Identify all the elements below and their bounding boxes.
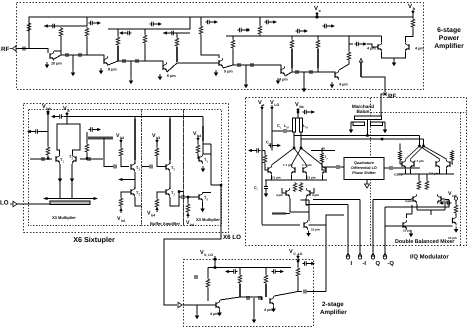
capacitor C2 xyxy=(66,53,68,57)
wire xyxy=(265,151,268,171)
transistor T4 upper xyxy=(166,162,170,172)
transistor A1 xyxy=(216,300,220,310)
RF port xyxy=(383,92,387,96)
Vbb wire down xyxy=(47,110,49,146)
ground xyxy=(276,78,281,84)
junction node xyxy=(297,111,300,114)
resistor R8 xyxy=(231,39,235,49)
bypass capacitor CB9 xyxy=(355,42,368,46)
base feed Q7 from interstage xyxy=(349,36,378,47)
resistor R2 xyxy=(425,180,429,190)
svg-text:1.7 μm: 1.7 μm xyxy=(283,163,293,167)
PA top rail xyxy=(29,17,413,49)
svg-text:RF: RF xyxy=(388,93,396,100)
bias feed arrows IQ xyxy=(260,107,263,110)
wire xyxy=(367,120,369,136)
bypass capacitor CB3 xyxy=(163,31,176,35)
wire xyxy=(351,122,385,127)
transistor Q8 xyxy=(405,42,409,52)
wire xyxy=(170,192,183,207)
transistor T6 xyxy=(199,192,203,202)
resistor Rb2 xyxy=(119,147,123,157)
bypass capacitor CB12 xyxy=(439,201,452,205)
wire xyxy=(121,192,131,213)
resistor R2 xyxy=(59,27,63,37)
svg-text:X3 Multiplier: X3 Multiplier xyxy=(196,217,220,222)
wire xyxy=(265,189,267,191)
wire xyxy=(262,150,265,152)
left mixer quad transistors xyxy=(268,165,272,175)
VC_LO wire xyxy=(297,254,299,267)
junction node xyxy=(86,157,89,160)
port xyxy=(383,253,386,259)
right load of left mixer xyxy=(320,152,323,163)
wire stage1-2 xyxy=(54,55,104,59)
wire xyxy=(316,12,318,17)
wire xyxy=(291,36,293,39)
transistor Q8 xyxy=(437,194,441,204)
svg-text:LO: LO xyxy=(274,103,279,107)
wire xyxy=(253,298,255,317)
wire RF input xyxy=(18,49,49,54)
ground xyxy=(200,206,205,212)
svg-text:V: V xyxy=(295,102,299,108)
output xyxy=(274,292,302,297)
svg-text:8 μm: 8 μm xyxy=(108,68,117,72)
EF emitter wires right xyxy=(417,204,445,215)
wire xyxy=(197,154,199,159)
stage1 collector line xyxy=(54,36,61,51)
right quad xyxy=(402,159,406,169)
wire xyxy=(134,117,136,165)
wire xyxy=(169,172,171,189)
junction node xyxy=(297,260,300,263)
TL gray xyxy=(291,49,293,68)
RF wire up from balun xyxy=(381,94,383,116)
svg-text:1.7 μm: 1.7 μm xyxy=(414,159,424,163)
svg-text:6-stage: 6-stage xyxy=(437,27,461,34)
wire xyxy=(399,144,401,165)
TL xyxy=(202,126,204,141)
wire xyxy=(130,61,132,78)
wire xyxy=(121,157,129,167)
wire xyxy=(226,35,284,37)
wire xyxy=(169,117,171,165)
wire xyxy=(361,77,385,92)
wire xyxy=(348,44,350,51)
ground xyxy=(195,313,200,319)
transistor Q1 xyxy=(291,165,295,175)
X3 multiplier 1 inner box xyxy=(29,110,142,226)
svg-text:b4: b4 xyxy=(190,223,194,227)
collector drops from tank xyxy=(294,132,301,148)
TL down xyxy=(169,119,171,160)
resistor below xyxy=(186,203,190,213)
capacitor C4 xyxy=(264,186,268,188)
transistor Q2 xyxy=(303,165,307,175)
wire xyxy=(176,33,178,37)
center divider dashed xyxy=(370,98,372,245)
wire xyxy=(451,161,453,164)
arrow left mid xyxy=(122,172,135,180)
wire xyxy=(157,192,166,212)
svg-text:4 μm: 4 μm xyxy=(279,78,288,82)
capacitor Ca2 xyxy=(259,296,261,300)
capacitor C2 xyxy=(88,157,90,161)
port xyxy=(358,253,361,259)
resistor R7 xyxy=(199,25,203,35)
ground xyxy=(306,231,311,237)
base cap xyxy=(182,195,184,199)
wire xyxy=(282,188,314,193)
stage6 collector xyxy=(339,61,349,70)
resistors xyxy=(293,182,297,192)
ground xyxy=(330,82,335,88)
svg-text:10 μm: 10 μm xyxy=(51,62,62,66)
collector loop xyxy=(57,124,80,154)
phase shifter ground xyxy=(366,180,368,184)
wire xyxy=(385,205,456,226)
ground xyxy=(158,74,163,80)
svg-text:b4: b4 xyxy=(151,214,155,218)
rail seg 5 xyxy=(284,35,382,37)
resistor R6 xyxy=(175,37,179,47)
svg-text:V: V xyxy=(258,100,262,106)
svg-text:RF: RF xyxy=(1,46,9,53)
bypass capacitor CB6 xyxy=(265,20,278,24)
bypass capacitor CB11 xyxy=(269,143,282,147)
base wires xyxy=(30,158,103,160)
transistor T1 xyxy=(56,154,60,164)
svg-text:bb: bb xyxy=(46,107,51,111)
transistor T2 xyxy=(72,154,76,164)
transistor Q4 xyxy=(219,58,223,68)
wire xyxy=(156,138,158,147)
right mixer loads xyxy=(398,150,401,161)
resistor R9 xyxy=(258,25,262,35)
shared emitter xyxy=(382,52,406,58)
wire xyxy=(317,68,319,72)
input wire xyxy=(183,304,216,306)
X3 multiplier 2 inner box xyxy=(184,110,222,226)
resistor Ra1 xyxy=(206,278,210,288)
transistor Q7 xyxy=(446,159,450,169)
svg-text:V: V xyxy=(42,104,46,110)
capacitor C3 xyxy=(79,53,81,57)
ground xyxy=(409,231,414,237)
node VC_LO xyxy=(296,256,299,259)
transistor A2 xyxy=(270,296,274,306)
wire xyxy=(86,37,88,55)
svg-text:10 μm: 10 μm xyxy=(311,228,320,232)
junction node xyxy=(214,258,217,261)
left pad arrow xyxy=(248,148,261,152)
wire xyxy=(286,213,290,215)
transistor Q6 xyxy=(436,159,440,169)
svg-text:6 μm: 6 μm xyxy=(167,74,176,78)
LO wire xyxy=(17,203,50,204)
wire xyxy=(202,117,204,155)
svg-text:X3 Multiplier: X3 Multiplier xyxy=(52,215,76,220)
LO collector fan left mixer xyxy=(272,148,323,165)
TL gray out to right xyxy=(88,137,113,140)
mixer inner dashed box xyxy=(371,113,467,246)
wire xyxy=(297,277,299,292)
wire xyxy=(142,166,149,168)
resistor R3 xyxy=(454,204,458,214)
ground xyxy=(271,306,276,312)
interstage xyxy=(220,297,262,300)
wire xyxy=(134,172,136,189)
transistor Q3 xyxy=(163,62,167,72)
transmission line TL xyxy=(176,47,178,62)
junction node xyxy=(47,157,50,160)
resistor R11 xyxy=(316,39,320,49)
wire stage2-3 xyxy=(108,61,163,65)
output down xyxy=(203,185,221,226)
wire xyxy=(60,51,62,55)
long wire right to buffer/x3 xyxy=(64,116,203,118)
capacitor C9 xyxy=(310,70,312,74)
capacitor C1 xyxy=(42,157,44,161)
transistor T4 lower xyxy=(166,187,170,197)
capacitor Ca3 xyxy=(304,289,306,293)
resistor R5 xyxy=(143,34,147,44)
transmission line TL xyxy=(117,46,119,61)
transistor Q4 xyxy=(306,188,310,198)
wire xyxy=(86,132,88,159)
bias feed arrows X6 xyxy=(46,111,49,114)
resistor Ra2 xyxy=(238,274,242,284)
svg-text:bb: bb xyxy=(299,105,303,109)
bypass caps xyxy=(225,269,238,273)
ground xyxy=(45,62,50,68)
svg-text:1.7 μm: 1.7 μm xyxy=(302,163,312,167)
svg-text:V: V xyxy=(408,3,412,10)
ground xyxy=(201,166,206,172)
ground xyxy=(383,127,388,133)
transistor Q5 xyxy=(281,66,285,76)
wire xyxy=(272,130,293,132)
wire xyxy=(239,268,241,275)
emitter line with arrows xyxy=(46,198,95,200)
wire xyxy=(262,224,300,226)
svg-text:b_LO: b_LO xyxy=(204,253,213,257)
svg-text:5 μm: 5 μm xyxy=(224,70,233,74)
stage3-4 wire xyxy=(167,60,219,72)
bypass capacitor CB4 xyxy=(206,20,219,24)
wire xyxy=(265,268,267,275)
resistor RL1 xyxy=(46,146,50,156)
junction node xyxy=(381,138,384,141)
EF right xyxy=(413,194,417,204)
bypass capacitor CB2 xyxy=(119,31,132,35)
transistor T3 lower xyxy=(131,187,135,197)
wire xyxy=(201,17,219,58)
wire xyxy=(245,65,247,82)
capacitor C3 xyxy=(284,129,286,133)
input pair: transistor Q7 xyxy=(378,42,382,52)
junction node xyxy=(422,145,425,148)
port xyxy=(371,253,374,259)
ground xyxy=(264,191,269,197)
PA dashed box xyxy=(17,3,424,90)
svg-text:V: V xyxy=(289,249,293,255)
svg-text:V: V xyxy=(63,106,67,112)
wire xyxy=(291,68,293,72)
svg-text:Balun: Balun xyxy=(356,109,369,114)
wire xyxy=(207,268,209,302)
wire xyxy=(306,200,449,208)
wire xyxy=(265,180,267,186)
svg-text:Amplifier: Amplifier xyxy=(320,309,347,316)
capacitor C4 xyxy=(123,59,125,63)
wire xyxy=(47,156,49,159)
svg-text:b2: b2 xyxy=(121,219,125,223)
svg-text:4 μm: 4 μm xyxy=(276,193,283,197)
svg-text:Double Balanced Mixer: Double Balanced Mixer xyxy=(395,239,455,245)
svg-text:X6 Sixtupler: X6 Sixtupler xyxy=(73,235,115,244)
tail collector TL xyxy=(272,212,286,214)
right mixer collector drops xyxy=(420,136,424,147)
svg-text:10 μm: 10 μm xyxy=(448,236,457,240)
svg-text:V: V xyxy=(314,5,318,12)
EF left mixer xyxy=(286,188,290,198)
stage4-5 caps xyxy=(223,65,281,68)
ground xyxy=(70,176,75,182)
wire xyxy=(307,291,326,293)
svg-text:V: V xyxy=(200,250,204,256)
wire xyxy=(384,167,420,169)
quadrature phase shifter box xyxy=(344,158,384,180)
svg-text:Differential LO: Differential LO xyxy=(351,166,377,170)
ground xyxy=(349,127,354,133)
wire xyxy=(419,174,427,180)
svg-text:Quadrature: Quadrature xyxy=(354,161,374,165)
junction node xyxy=(293,147,296,150)
LO wire to tails xyxy=(308,215,344,225)
rail2 segment xyxy=(44,17,87,26)
junction node xyxy=(418,145,421,148)
right mixer collector fan xyxy=(406,146,447,159)
wire xyxy=(144,29,146,61)
bias wire xyxy=(208,256,291,268)
bypass capacitor CB13 xyxy=(303,261,316,265)
supply wires down xyxy=(262,105,272,225)
wire xyxy=(303,72,305,86)
resistor R4 xyxy=(116,36,120,46)
Vb wire down xyxy=(66,112,68,124)
collector link xyxy=(405,28,413,42)
buffer inner box xyxy=(142,110,184,226)
svg-text:3.5 μm: 3.5 μm xyxy=(306,176,316,180)
ground xyxy=(99,68,104,74)
capacitor C7 xyxy=(251,63,253,67)
bypass capacitor CB1 xyxy=(89,21,102,25)
wire xyxy=(412,10,414,18)
svg-text:2-stage: 2-stage xyxy=(322,301,344,308)
capacitor Cb3 xyxy=(150,164,152,168)
rail seg stage3 xyxy=(163,32,190,34)
wire xyxy=(368,136,424,140)
transistor Q3 xyxy=(322,165,326,175)
wire xyxy=(104,138,113,167)
junction node xyxy=(214,266,217,269)
ground long stem xyxy=(72,55,74,70)
svg-text:Buffer Amplifier: Buffer Amplifier xyxy=(150,221,181,226)
svg-text:X6 LO: X6 LO xyxy=(223,234,241,241)
wire xyxy=(232,36,234,65)
wire xyxy=(187,197,189,218)
ports I -I Q -Q xyxy=(346,253,349,259)
wire xyxy=(294,113,301,118)
wire xyxy=(322,148,326,170)
svg-text:4 μm: 4 μm xyxy=(312,193,319,197)
RF input TL into emitter xyxy=(360,62,362,77)
resistor below xyxy=(155,198,159,208)
wire xyxy=(381,36,383,42)
transistor Q5 xyxy=(410,159,414,169)
wire xyxy=(311,150,335,152)
wire xyxy=(393,58,395,60)
wire xyxy=(117,29,119,36)
transistor Q9 xyxy=(453,216,457,226)
svg-text:3.5 μm: 3.5 μm xyxy=(271,176,281,180)
right quad emitter bus xyxy=(398,164,454,174)
transistor Q1 xyxy=(50,51,54,61)
capacitor C8 xyxy=(296,70,298,74)
bypass capacitor CB14 xyxy=(272,269,285,273)
wire X6 LO to 2-stage amp xyxy=(164,226,221,305)
wire xyxy=(259,17,261,36)
emitter TL bar xyxy=(50,201,90,205)
bypass cap left xyxy=(51,114,64,118)
junction node xyxy=(366,134,369,137)
wire xyxy=(409,198,449,201)
resistors xyxy=(417,180,421,190)
transmission line TL xyxy=(317,49,319,68)
resistor Rb3 xyxy=(155,147,159,157)
wire xyxy=(196,305,198,313)
capacitor Ca1 xyxy=(247,296,249,300)
bypass cap arrow C xyxy=(44,24,57,28)
bypass cap right out xyxy=(89,127,102,131)
bypass capacitor CB8 xyxy=(323,24,336,28)
svg-text:Phase Shifter: Phase Shifter xyxy=(352,171,376,175)
wire xyxy=(157,157,166,167)
stage5-6 wire xyxy=(285,72,335,76)
svg-text:-Q: -Q xyxy=(388,260,395,267)
bypass capacitor CB10 xyxy=(303,110,316,114)
bias feed arrows PA xyxy=(315,13,318,16)
ground xyxy=(214,70,219,76)
svg-text:a: a xyxy=(262,103,264,107)
junction node xyxy=(178,190,181,193)
EF emitters down xyxy=(290,198,309,221)
node Vb_LO xyxy=(213,258,216,261)
emitters down xyxy=(60,164,72,199)
resistor xyxy=(196,144,200,154)
transmission line TL xyxy=(239,284,241,297)
junction node xyxy=(220,184,223,187)
LO feed up from 2-stage amp xyxy=(325,215,327,292)
transistor T5 xyxy=(199,154,203,164)
caps to phase shifter xyxy=(337,165,339,169)
ground xyxy=(454,227,459,233)
svg-text:LO: LO xyxy=(0,200,9,207)
resistor Ra4 xyxy=(296,267,300,277)
tail transistors right mixer xyxy=(403,220,407,230)
